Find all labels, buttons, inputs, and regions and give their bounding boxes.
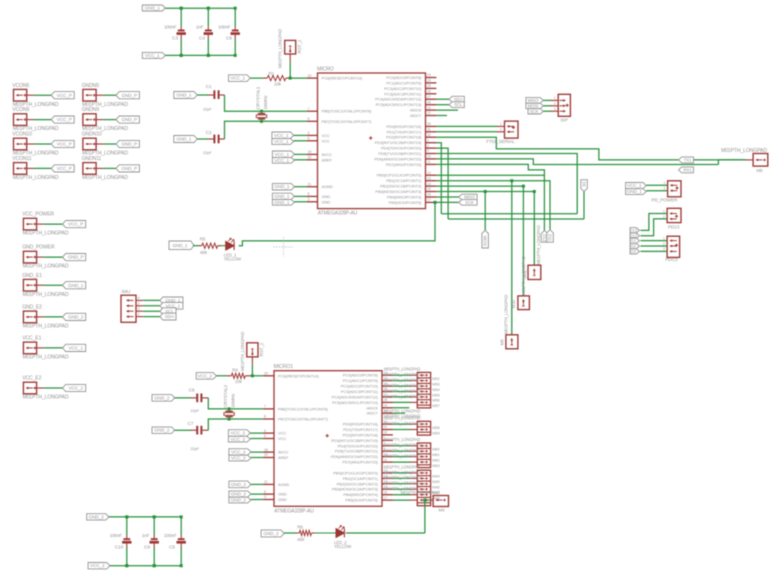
svg-text:16: 16 [427,193,431,197]
resistor R4 10k [216,375,227,377]
svg-text:VCC_2: VCC_2 [68,386,83,391]
svg-text:5: 5 [264,490,266,494]
svg-text:GND_1: GND_1 [627,189,643,194]
wire VCON10 to flag [34,143,52,145]
svg-text:GND: GND [322,199,331,204]
svg-text:21: 21 [308,182,312,186]
svg-text:M54: M54 [432,387,440,392]
svg-text:D13: D13 [630,228,638,233]
svg-text:M01PTH_LONGPAD: M01PTH_LONGPAD [23,324,69,330]
wire GND_POWER to flag [44,256,64,258]
svg-text:M46: M46 [432,485,439,490]
wire ladder row [393,374,410,376]
wire XTAL2 IC2 [228,418,231,421]
connector pad VCON11 [14,163,27,175]
svg-text:AVCC: AVCC [278,450,289,455]
sheet origin cross [274,237,294,257]
net flag GND_1 top cap bank [142,5,165,11]
svg-text:PB0(ICP1/CLKO/PCINT0): PB0(ICP1/CLKO/PCINT0) [333,470,378,475]
wire R5 to LED_1 [221,245,226,247]
svg-text:SCK: SCK [530,109,539,114]
svg-text:1nF: 1nF [196,24,204,29]
svg-text:PB4(MISO/PCINT4): PB4(MISO/PCINT4) [343,492,378,497]
svg-text:PC2(ADC2/PCINT10): PC2(ADC2/PCINT10) [341,384,379,389]
net flag VCC_2 [63,384,86,391]
svg-text:PB2(SS/OC1B/PCINT2): PB2(SS/OC1B/PCINT2) [380,184,422,189]
svg-text:D11: D11 [547,234,552,242]
wire C7 to XTAL2 IC2 [208,419,229,430]
wire ladder row [393,488,410,490]
svg-text:G3: G3 [631,249,637,254]
svg-text:M01PTH_LONGPAD: M01PTH_LONGPAD [384,470,421,475]
svg-text:VCC_1: VCC_1 [275,158,290,163]
net flag GND_2 pair IC2 [229,491,251,497]
svg-text:M01PTH_LONGPAD: M01PTH_LONGPAD [384,372,421,377]
wire ladder row [393,494,410,496]
connector ladder column [417,372,430,408]
connector pad VCON10 [14,138,27,150]
net flag vertical 2 [547,230,554,243]
svg-text:M01PTH_LONGPAD: M01PTH_LONGPAD [384,454,421,459]
svg-text:PC6(/RESET/PCINT14): PC6(/RESET/PCINT14) [322,76,363,81]
svg-text:GND: GND [278,497,287,502]
IC U1 left pins [307,77,318,79]
net flag VCC_1 [63,344,86,351]
svg-text:PD0(RXD/PCINT16): PD0(RXD/PCINT16) [343,422,379,427]
wire ADC6 stub [436,109,458,111]
svg-text:22pF: 22pF [190,408,199,413]
IC U2 right pins [382,374,393,376]
svg-text:PC5(ADC5/SCL/PCINT13): PC5(ADC5/SCL/PCINT13) [376,102,422,107]
svg-text:/ADC7: /ADC7 [366,411,378,416]
svg-text:VCC: VCC [278,431,286,436]
svg-text:21: 21 [264,480,268,484]
IC U2 ATMEGA328P-AU body [274,371,382,507]
wire ADC6 IC2 [393,407,409,409]
svg-text:GND_E2: GND_E2 [22,305,42,311]
svg-text:PC3(ADC3/PCINT11): PC3(ADC3/PCINT11) [384,91,422,96]
connector pad GND_POWER [23,251,36,263]
svg-text:10k: 10k [235,379,243,384]
svg-text:TX1: TX1 [684,158,692,163]
svg-text:M01PTH_LONGPAD: M01PTH_LONGPAD [504,295,509,334]
svg-text:YELLOW: YELLOW [334,544,352,549]
svg-text:GND_2: GND_2 [68,315,84,320]
wire SCK to LED_1 [239,202,435,245]
svg-text:PD2(INT0/PCINT18): PD2(INT0/PCINT18) [343,432,379,437]
net flag GND_2 bottom bank [87,514,109,520]
wire IMU pin 3 [143,310,161,312]
svg-text:M01PTH_LONGPAD: M01PTH_LONGPAD [384,408,421,413]
svg-text:M56: M56 [432,398,439,403]
svg-text:AGND: AGND [322,184,333,189]
connector ladder column [417,443,430,468]
connector ladder column [417,470,430,506]
svg-text:M01PTH_LONGPAD: M01PTH_LONGPAD [384,437,421,442]
svg-text:M01PTH_LONGPAD: M01PTH_LONGPAD [384,464,421,469]
svg-text:PD4(T0/XCK/PCINT20): PD4(T0/XCK/PCINT20) [381,146,422,151]
connector ISP [551,99,559,101]
crystal Q2 16MHz [225,411,232,413]
net flag vertical 1 [541,230,548,242]
svg-text:ATMEGA328P-AU: ATMEGA328P-AU [318,211,358,217]
wire PB5 down to LED_2 row [424,500,426,533]
svg-text:IMU: IMU [122,289,131,295]
connector pad RST_2 [247,343,258,357]
svg-text:GND_P: GND_P [122,142,138,147]
svg-text:M55: M55 [432,392,439,397]
net flag vertical MOSI [482,230,489,248]
svg-text:C4: C4 [199,36,205,42]
wire VCC_POWER to flag [44,223,64,225]
wire ladder row [393,472,410,474]
svg-text:MICRO1: MICRO1 [274,364,294,370]
svg-text:M01PTH_LONGPAD: M01PTH_LONGPAD [384,475,421,480]
svg-text:PC2(ADC2/PCINT10): PC2(ADC2/PCINT10) [384,86,422,91]
svg-text:M01PTH_LONGPAD: M01PTH_LONGPAD [384,481,421,486]
connector pad RST_1 [285,40,296,54]
svg-text:9: 9 [427,149,429,153]
svg-text:25: 25 [427,84,431,88]
wire GNDN11 to flag [103,167,117,169]
svg-text:14: 14 [427,182,431,186]
svg-text:M53: M53 [432,381,439,386]
net flag MISO [459,194,478,200]
svg-text:100nF: 100nF [164,533,177,538]
svg-text:GNDN11: GNDN11 [82,156,102,162]
svg-text:RX1: RX1 [684,167,693,172]
svg-text:M9: M9 [499,339,504,346]
svg-text:M01PTH_LONGPAD: M01PTH_LONGPAD [384,367,421,372]
svg-text:17: 17 [384,496,388,500]
net flag VCC_1 AVCC AREF [272,151,294,157]
svg-text:M58: M58 [432,425,439,430]
svg-text:GND_2: GND_2 [231,492,247,497]
svg-text:MOSI: MOSI [482,236,487,246]
svg-text:GND_2: GND_2 [231,482,247,487]
svg-text:D12: D12 [542,234,547,242]
wire ladder row [393,450,410,452]
wire PB5 IC2 to pad M4 and LED_2 [423,499,426,502]
wire XTAL2 to IC1 [260,120,263,123]
svg-text:GND_1: GND_1 [145,6,161,11]
svg-text:8: 8 [264,415,266,419]
svg-text:G2: G2 [631,244,637,249]
wire net from PD5 down [436,154,577,214]
svg-text:GNDN9: GNDN9 [82,107,100,113]
capacitor C3 [180,8,182,27]
ISP connector flags [526,98,544,104]
svg-text:100nF: 100nF [164,24,177,29]
crystal Q1 16MHz [258,113,265,115]
svg-text:32: 32 [427,133,431,137]
net flag vertical D5 [581,180,588,192]
svg-text:GND_2: GND_2 [231,498,247,503]
svg-text:PC5(ADC5/SCL/PCINT13): PC5(ADC5/SCL/PCINT13) [332,400,378,405]
wire PB5 SCK to LED [436,201,459,203]
svg-text:1: 1 [663,236,665,240]
wire R7 to LED_2 [315,532,336,534]
wire ladder row [393,401,410,403]
svg-text:M6: M6 [757,168,764,173]
wire PB4 MISO [436,196,459,198]
svg-text:M52: M52 [432,376,439,381]
svg-text:VCC_2: VCC_2 [231,449,246,454]
svg-text:22: 22 [427,111,431,115]
svg-text:PD6(AIN0/OC0A/PCINT22): PD6(AIN0/OC0A/PCINT22) [374,156,422,161]
wire GND_1 rail top [165,7,235,9]
wire XTAL1 to IC1 [260,110,263,113]
svg-text:PD7(AIN1/PCINT23): PD7(AIN1/PCINT23) [386,162,422,167]
svg-text:GND_1: GND_1 [274,184,290,189]
wire ladder row [393,445,410,447]
wire ladder row [393,391,410,393]
svg-text:18: 18 [308,150,312,154]
svg-text:PB4(MISO/PCINT4): PB4(MISO/PCINT4) [387,195,422,200]
wire net from PB0 [436,174,544,176]
resistor R1 10k [250,77,263,79]
net flag GND_1 PD_POWER [626,189,647,195]
svg-text:PDG3: PDG3 [665,257,678,262]
svg-text:VCON10: VCON10 [12,132,32,138]
net flag VCC_1 [160,302,183,309]
net flag VCC_2 pair IC2 [228,430,250,437]
wire VCON9 to flag [34,119,52,121]
wire VCON11 to flag [34,167,52,169]
wire horizontal bus y213.5 [441,213,577,215]
svg-text:VCON5: VCON5 [12,83,29,89]
svg-text:M01PTH_LONGPAD: M01PTH_LONGPAD [23,231,69,237]
svg-text:VCC_P: VCC_P [57,117,72,122]
svg-text:22pF: 22pF [190,446,199,451]
svg-text:PD3(INT1/OC2B/PCINT19): PD3(INT1/OC2B/PCINT19) [331,438,378,443]
svg-text:10k: 10k [274,81,282,86]
LED LED_1 [226,241,234,250]
svg-text:1: 1 [427,138,429,142]
svg-text:AVCC: AVCC [322,152,333,157]
svg-text:GNDN10: GNDN10 [82,132,102,138]
IC U1 ATMEGA328P-AU body [318,73,426,209]
svg-text:MOSI: MOSI [528,104,539,109]
svg-text:VCC_P: VCC_P [57,166,72,171]
svg-text:26: 26 [427,90,431,94]
svg-text:PC0(ADC0/PCINT8): PC0(ADC0/PCINT8) [386,75,422,80]
net flag GND_2 [63,313,86,320]
svg-text:100nF: 100nF [218,24,231,29]
svg-text:M01PTH_LONGPAD: M01PTH_LONGPAD [384,383,421,388]
svg-text:C6: C6 [226,36,232,42]
resistor R5 499 [193,245,199,247]
svg-text:PC1(ADC1/PCINT9): PC1(ADC1/PCINT9) [386,80,422,85]
svg-text:M01PTH_LONGPAD: M01PTH_LONGPAD [23,292,69,298]
svg-text:13: 13 [427,176,431,180]
svg-text:MISO: MISO [528,98,539,103]
net flag GND_P [116,165,139,172]
net flag GND_1 [63,282,86,289]
svg-text:M01PTH_LONGPAD: M01PTH_LONGPAD [240,332,245,371]
svg-text:VCON11: VCON11 [12,156,32,162]
svg-text:VCC_E1: VCC_E1 [22,336,41,342]
svg-text:GND_POWER: GND_POWER [22,245,55,251]
net flag D13 [630,228,639,233]
svg-text:PD5(T1/OC0B/PCINT21): PD5(T1/OC0B/PCINT21) [378,151,422,156]
wire ladder row [393,423,410,425]
svg-text:M01PTH_LONGPAD: M01PTH_LONGPAD [23,355,69,361]
svg-text:PD5(T1/OC0B/PCINT21): PD5(T1/OC0B/PCINT21) [335,449,379,454]
wire VCC_1 rail [165,54,235,56]
svg-text:AREF: AREF [278,455,289,460]
svg-text:20: 20 [264,453,268,457]
wire GNDN10 to flag [103,143,117,145]
wire net from PB3 MOSI to pad M11 [436,191,534,193]
net flag SCL [449,102,464,108]
svg-text:GND_1: GND_1 [274,200,290,205]
svg-text:7: 7 [264,405,266,409]
wire vertical to flag D5 [583,192,585,220]
wire M6 to PD6 net [718,159,745,161]
svg-text:PD1(TXD/PCINT17): PD1(TXD/PCINT17) [387,129,422,134]
wire net from PD7 [436,164,544,230]
wire PD13 pin2 [641,219,668,236]
svg-text:/ADC6: /ADC6 [366,405,378,410]
svg-text:2: 2 [138,301,140,305]
wire SDA [436,98,450,100]
resistor R7 499 [284,532,296,534]
svg-text:M01PTH_LONGPAD: M01PTH_LONGPAD [384,394,421,399]
svg-text:19: 19 [384,404,388,408]
svg-text:PB6(TOSC1/XTAL1/PCINT6): PB6(TOSC1/XTAL1/PCINT6) [278,406,328,411]
svg-text:GND_2: GND_2 [263,531,279,536]
svg-text:C3: C3 [172,36,178,42]
svg-text:PC4(ADC4/SDA/PCINT12): PC4(ADC4/SDA/PCINT12) [375,97,422,102]
svg-text:VCC_1: VCC_1 [145,53,160,58]
svg-text:M01PTH_LONGPAD: M01PTH_LONGPAD [82,175,128,181]
svg-text:VCC_P: VCC_P [68,222,83,227]
svg-text:M63: M63 [432,463,439,468]
svg-text:FTDI_SERIAL: FTDI_SERIAL [486,139,515,144]
svg-text:2: 2 [427,144,429,148]
svg-text:SDA: SDA [454,97,463,102]
capacitor C10 [126,517,128,536]
svg-text:SCL: SCL [454,102,463,107]
wire VCON5 to flag [34,94,52,96]
wire ADC7 IC2 [393,412,405,414]
svg-text:6: 6 [264,434,266,438]
wire C8 to XTAL1 IC2 [208,398,229,409]
wire SCL [436,104,450,106]
svg-text:11: 11 [427,160,431,164]
svg-text:CRYSTAL2: CRYSTAL2 [223,385,228,408]
svg-text:PC1(ADC1/PCINT9): PC1(ADC1/PCINT9) [343,378,379,383]
wire ladder row [393,477,410,479]
net flag RX1 [679,167,694,173]
wire net TX staircase from PD2 [436,137,680,160]
svg-text:VCC_2: VCC_2 [197,373,212,378]
svg-text:GND: GND [322,194,331,199]
svg-text:PD7(AIN1/PCINT23): PD7(AIN1/PCINT23) [342,460,378,465]
svg-text:PD13: PD13 [668,225,680,230]
svg-text:VCC: VCC [322,138,330,143]
svg-text:M11: M11 [522,269,527,278]
wires ISP [543,99,551,101]
wire PD13 pin1 [641,214,668,231]
wire RST_1 to junction [289,62,291,78]
net flag GND_1 pair [272,193,294,199]
wire net from PB1 down [436,181,550,230]
svg-text:PD0(RXD/PCINT16): PD0(RXD/PCINT16) [386,124,422,129]
connector PD_POWER [668,181,681,197]
svg-text:PB1(OC1A/PCINT1): PB1(OC1A/PCINT1) [386,178,422,183]
connector pad VCC_E1 [23,342,36,354]
capacitor C4 [207,8,209,27]
svg-text:M01PTH_LONGPAD: M01PTH_LONGPAD [384,416,421,421]
connector pad GNDN10 [83,138,96,150]
svg-text:20: 20 [308,156,312,160]
svg-text:PD1(TXD/PCINT17): PD1(TXD/PCINT17) [343,427,378,432]
svg-text:GND_P: GND_P [122,117,138,122]
svg-text:3: 3 [264,495,266,499]
net flag GND_2 LED_2 [261,530,284,537]
svg-text:R1: R1 [269,71,275,76]
capacitor C5 [180,517,182,536]
wire VCC_2 rail [110,565,181,567]
svg-text:27: 27 [427,95,431,99]
svg-text:1: 1 [663,209,665,213]
svg-text:PB0(ICP1/CLKO/PCINT0): PB0(ICP1/CLKO/PCINT0) [377,173,422,178]
net flag TX1 [679,157,694,163]
svg-text:1: 1 [554,96,556,100]
svg-text:C8: C8 [189,388,195,393]
svg-text:3: 3 [308,198,310,202]
svg-text:2: 2 [663,215,665,219]
wire ladder row [393,429,410,431]
svg-text:19: 19 [427,106,431,110]
wire horizontal bus y219.4 [448,218,584,220]
svg-text:3: 3 [138,307,140,311]
svg-text:GND: GND [278,492,287,497]
net flag GND_P [116,140,139,147]
net flag VCC_1 bottom cap rail [142,52,165,58]
net flag G1 [630,238,639,243]
svg-text:RST_1: RST_1 [297,39,302,53]
wire GND_2 rail [109,516,181,518]
svg-text:M61: M61 [432,452,439,457]
svg-text:30: 30 [427,122,431,126]
net flag SDA [449,96,464,102]
connector pad VCON9 [14,114,27,126]
svg-text:VCC_1: VCC_1 [274,133,289,138]
svg-text:GNDN5: GNDN5 [82,83,100,89]
connector pad GNDN9 [83,114,96,126]
svg-text:M01PTH_LONGPAD: M01PTH_LONGPAD [384,378,421,383]
svg-text:PB6(TOSC1/XTAL1/PCINT6): PB6(TOSC1/XTAL1/PCINT6) [322,109,372,114]
svg-text:M01PTH_LONGPAD: M01PTH_LONGPAD [384,443,421,448]
svg-text:M59: M59 [432,430,439,435]
svg-text:C2: C2 [206,130,212,135]
svg-text:31: 31 [427,128,431,132]
svg-text:VCC_1: VCC_1 [274,139,289,144]
svg-text:VCC_1: VCC_1 [275,152,290,157]
connector pad GND_E1 [23,279,36,291]
svg-text:22pF: 22pF [203,150,212,155]
net flag SCK [459,200,478,206]
svg-text:32: 32 [384,431,388,435]
svg-text:M01PTH_LONGPAD: M01PTH_LONGPAD [401,490,440,495]
svg-text:M45: M45 [432,479,439,484]
svg-text:PB7(TOSC2/XTAL2/PCINT7): PB7(TOSC2/XTAL2/PCINT7) [278,417,328,422]
wires PD_POWER [646,184,667,186]
svg-text:PB7(TOSC2/XTAL2/PCINT7): PB7(TOSC2/XTAL2/PCINT7) [322,119,372,124]
